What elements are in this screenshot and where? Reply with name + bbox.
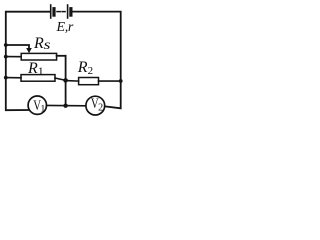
wire rail to R1 xyxy=(6,77,21,79)
resistor Rs xyxy=(21,53,56,60)
voltmeter V1 xyxy=(28,96,46,115)
svg-text:R: R xyxy=(33,35,44,52)
wire top-left (battery left lead) xyxy=(6,12,50,45)
wire Rs to center rail xyxy=(57,55,66,57)
wire right rail lower part xyxy=(105,81,121,108)
node E (right rail / R2 junction) xyxy=(119,79,123,83)
wire V1 to center junction to V2 xyxy=(47,104,86,106)
resistor R1 xyxy=(21,75,55,82)
wire R1 to center rail xyxy=(55,78,66,80)
wire R2 to right rail xyxy=(99,80,121,82)
resistor R2 xyxy=(79,78,99,85)
voltmeter V2 xyxy=(86,94,105,115)
svg-text:s: s xyxy=(44,38,51,53)
wire wiper feed xyxy=(6,45,29,49)
svg-text:1: 1 xyxy=(40,104,45,115)
battery E,r xyxy=(51,5,71,18)
node C (left rail / R1 junction) xyxy=(4,76,8,80)
wire center rail to R2 xyxy=(66,80,79,83)
svg-text:E,r: E,r xyxy=(56,20,74,35)
node F (bottom rail / center rail junction) xyxy=(63,104,67,108)
svg-text:2: 2 xyxy=(98,102,103,113)
node D (center rail / R1 R2 junction) xyxy=(63,78,68,83)
node A (left rail / wiper feed junction) xyxy=(4,43,8,47)
wire left rail lower part xyxy=(6,45,30,110)
svg-text:R2: R2 xyxy=(77,59,93,77)
wire center rail xyxy=(65,56,67,106)
wire top-right (battery right lead) xyxy=(73,12,121,81)
svg-text:R1: R1 xyxy=(27,60,44,78)
node B (left rail / Rs junction) xyxy=(4,55,8,59)
wiper arrow of Rs xyxy=(26,48,32,53)
wire rail to Rs xyxy=(6,56,21,58)
